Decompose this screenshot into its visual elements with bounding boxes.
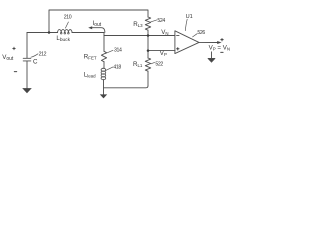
svg-text:212: 212	[39, 52, 47, 58]
svg-text:VP: VP	[160, 50, 167, 57]
wire main rail left	[27, 32, 58, 34]
leader 212	[31, 54, 38, 57]
op-amp minus sign	[177, 34, 180, 36]
leader 314	[105, 50, 113, 53]
svg-text:VP = VN: VP = VN	[209, 45, 230, 52]
wire sense rail to op-amp minus input	[104, 35, 175, 37]
resistor R_L3 zigzag	[145, 17, 150, 30]
svg-text:RFET: RFET	[84, 54, 97, 61]
wire R_L1 bottom	[147, 71, 149, 86]
resistor R_L1 zigzag	[145, 58, 150, 71]
wire below L_lead	[103, 80, 105, 95]
plus sign output	[221, 38, 224, 41]
wire V_P to op-amp plus input	[148, 50, 175, 52]
leader 526	[193, 34, 198, 37]
junction node V_P	[147, 49, 150, 52]
leader 210	[65, 22, 68, 28]
wire left column lower	[26, 61, 28, 89]
op-amp plus sign	[177, 48, 180, 51]
svg-text:RL3: RL3	[133, 21, 143, 28]
wire R_L3 bottom to junction	[147, 30, 149, 35]
ground arrow middle	[100, 94, 107, 98]
wire sense divider mid	[147, 36, 149, 59]
svg-text:RL1: RL1	[133, 61, 143, 68]
leader 524	[151, 20, 157, 22]
wire R_FET branch upper	[103, 36, 105, 52]
svg-text:C: C	[33, 58, 38, 65]
svg-text:418: 418	[113, 65, 121, 71]
ground arrow left (V_out return)	[22, 88, 32, 93]
arrowhead output (points right)	[217, 41, 221, 44]
op-amp output wire	[199, 41, 218, 43]
svg-text:Iout: Iout	[93, 20, 102, 28]
op-amp U1 triangle	[175, 31, 199, 54]
svg-text:210: 210	[64, 15, 72, 21]
inductor L_lead coil	[101, 68, 106, 79]
wire bottom rail	[104, 86, 149, 88]
capacitor C plates	[23, 58, 31, 61]
svg-text:VN: VN	[161, 29, 168, 36]
inductor L_buck	[58, 30, 72, 33]
svg-text:526: 526	[197, 30, 205, 36]
svg-text:Lbuck: Lbuck	[56, 35, 70, 43]
wire left column upper	[26, 33, 28, 58]
minus sign V_out	[14, 71, 17, 73]
svg-text:Vout: Vout	[2, 54, 14, 62]
svg-text:522: 522	[155, 62, 163, 68]
junction node at top loop	[48, 31, 51, 34]
svg-text:U1: U1	[186, 14, 193, 20]
leader 522	[151, 62, 155, 63]
wire between R_FET and L_lead	[103, 62, 105, 69]
plus sign V_out	[13, 47, 16, 50]
junction node V_N	[147, 34, 150, 37]
leader U1	[185, 19, 187, 30]
resistor R_FET zigzag	[101, 51, 106, 61]
arrowhead I_out (points left)	[88, 26, 92, 29]
minus sign output	[221, 51, 224, 53]
wire main rail right of inductor	[72, 32, 104, 34]
svg-text:524: 524	[157, 18, 165, 24]
ground arrow output reference	[208, 52, 215, 62]
svg-text:314: 314	[114, 48, 122, 54]
wire I_out tap	[92, 28, 105, 33]
leader 418	[106, 67, 114, 71]
wire top rail	[49, 10, 148, 33]
svg-text:Llead: Llead	[84, 72, 96, 79]
wire jog down to sense rail	[103, 33, 105, 36]
